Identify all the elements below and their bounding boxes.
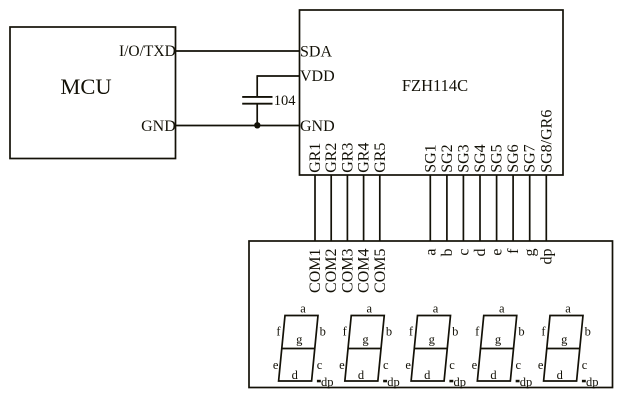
wire capacitor to GND net <box>256 104 258 126</box>
svg-text:g: g <box>522 249 539 257</box>
chip U1 FZH114C box <box>300 10 564 175</box>
svg-text:e: e <box>489 249 506 256</box>
7-segment digit DS2 <box>339 302 400 389</box>
wire SG1 to display <box>429 175 431 241</box>
wire VDD horizontal <box>257 75 299 77</box>
svg-text:SG2: SG2 <box>439 144 456 172</box>
svg-text:COM3: COM3 <box>339 249 356 293</box>
svg-text:GR5: GR5 <box>372 143 389 173</box>
display module box <box>249 241 613 388</box>
wire GR1 to display <box>314 175 316 241</box>
wire GR3 to display <box>346 175 348 241</box>
svg-text:f: f <box>505 248 522 254</box>
wire MCU GND to chip GND <box>176 125 300 127</box>
wire SG4 to display <box>479 175 481 241</box>
svg-text:SG4: SG4 <box>472 144 489 172</box>
svg-text:GR2: GR2 <box>323 143 340 173</box>
svg-text:COM4: COM4 <box>356 249 373 293</box>
7-segment digit DS1 <box>273 302 334 389</box>
svg-text:b: b <box>439 249 456 257</box>
wire I/O/TXD to SDA <box>176 50 300 52</box>
svg-text:GND: GND <box>300 118 335 135</box>
junction dot on GND net <box>254 122 260 128</box>
svg-text:104: 104 <box>274 93 297 109</box>
wire SG7 to display <box>529 175 531 241</box>
svg-text:SG7: SG7 <box>522 144 539 172</box>
svg-text:COM5: COM5 <box>372 249 389 293</box>
svg-text:c: c <box>455 249 472 256</box>
svg-text:d: d <box>472 249 489 257</box>
svg-text:a: a <box>422 249 439 256</box>
svg-text:SG8/GR6: SG8/GR6 <box>538 110 555 173</box>
7-segment digit DS4 <box>472 302 533 389</box>
svg-text:GR4: GR4 <box>356 143 373 173</box>
svg-text:COM2: COM2 <box>323 249 340 293</box>
wire SG5 to display <box>496 175 498 241</box>
svg-text:dp: dp <box>538 249 555 265</box>
svg-text:FZH114C: FZH114C <box>402 76 468 95</box>
capacitor C1 top plate <box>242 96 272 98</box>
svg-text:SDA: SDA <box>300 43 332 60</box>
wire GR2 to display <box>330 175 332 241</box>
7-segment digit DS3 <box>405 302 466 389</box>
svg-text:GND: GND <box>141 118 176 135</box>
svg-text:SG3: SG3 <box>455 144 472 172</box>
wire GR5 to display <box>379 175 381 241</box>
svg-text:GR3: GR3 <box>339 143 356 173</box>
capacitor C1 bottom plate <box>242 103 272 105</box>
svg-text:MCU: MCU <box>60 74 111 99</box>
svg-text:GR1: GR1 <box>307 143 324 173</box>
wire SG6 to display <box>512 175 514 241</box>
svg-text:COM1: COM1 <box>307 249 324 293</box>
wire SG8/GR6 to display <box>545 175 547 241</box>
svg-text:I/O/TXD: I/O/TXD <box>119 43 176 60</box>
svg-text:VDD: VDD <box>300 68 335 85</box>
wire VDD down to capacitor <box>256 75 258 97</box>
MCU box <box>10 27 176 159</box>
wire GR4 to display <box>363 175 365 241</box>
svg-text:SG1: SG1 <box>422 144 439 172</box>
svg-text:SG5: SG5 <box>489 144 506 172</box>
wire SG2 to display <box>446 175 448 241</box>
svg-text:SG6: SG6 <box>505 144 522 172</box>
wire SG3 to display <box>462 175 464 241</box>
7-segment digit DS5 <box>538 302 599 389</box>
